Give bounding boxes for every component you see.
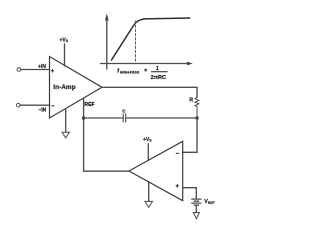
svg-text:VREF: VREF	[204, 199, 214, 205]
battery VREF plates	[191, 199, 201, 205]
svg-text:2πRC: 2πRC	[151, 75, 166, 81]
op-amp +Vs supply pin	[147, 144, 149, 161]
graph horizontal axis	[101, 63, 188, 65]
svg-text:+: +	[176, 184, 180, 190]
resistor R zigzag	[195, 97, 199, 118]
svg-text:=: =	[144, 68, 147, 74]
wire node to op-amp inverting input	[183, 118, 197, 152]
graph vertical axis	[106, 19, 108, 69]
svg-text:–: –	[176, 151, 180, 157]
svg-text:–: –	[51, 104, 55, 110]
graph horizontal axis arrowhead	[187, 62, 193, 66]
in-amp U1 body	[50, 57, 103, 119]
svg-text:+VS: +VS	[60, 37, 69, 43]
graph dashed cutoff line	[135, 21, 137, 63]
wire REF node through capacitor C to R node	[84, 117, 197, 119]
svg-text:1: 1	[156, 66, 159, 72]
wire in-amp output to R	[102, 87, 197, 97]
wire op-amp noninverting input to battery	[183, 188, 197, 199]
wire REF node down to op-amp output	[84, 118, 129, 171]
in-amp -Vs pin to ground	[65, 109, 67, 132]
ground symbol under op-amp	[145, 201, 153, 207]
wire battery to ground	[195, 206, 197, 213]
svg-text:In-Amp: In-Amp	[53, 84, 75, 91]
node R/C junction dot	[195, 116, 198, 119]
svg-text:C: C	[122, 108, 126, 114]
terminal -IN circle	[17, 103, 21, 107]
formula fraction bar	[151, 71, 168, 73]
svg-text:+VS: +VS	[143, 137, 152, 143]
in-amp +Vs supply pin	[64, 44, 66, 66]
wire -IN to in-amp	[20, 104, 49, 106]
svg-text:–IN: –IN	[39, 107, 47, 113]
in-amp REF pin	[83, 98, 85, 118]
svg-text:+: +	[51, 69, 55, 75]
graph vertical axis arrowhead	[105, 14, 109, 21]
terminal +IN circle	[17, 68, 21, 72]
wire +IN to in-amp	[21, 69, 50, 71]
ground symbol under in-amp	[62, 132, 69, 138]
svg-text:REF: REF	[84, 102, 94, 108]
svg-text:HIGH-PASS: HIGH-PASS	[120, 70, 140, 74]
op-amp U2 body	[129, 141, 183, 200]
svg-text:R: R	[189, 97, 193, 103]
capacitor C plates	[123, 114, 126, 122]
svg-text:+IN: +IN	[38, 64, 46, 70]
ground symbol under battery	[193, 213, 199, 219]
node REF junction dot	[82, 116, 85, 119]
graph high-pass response curve	[112, 18, 190, 60]
op-amp -Vs pin to ground	[148, 182, 150, 202]
svg-text:f: f	[117, 69, 119, 75]
